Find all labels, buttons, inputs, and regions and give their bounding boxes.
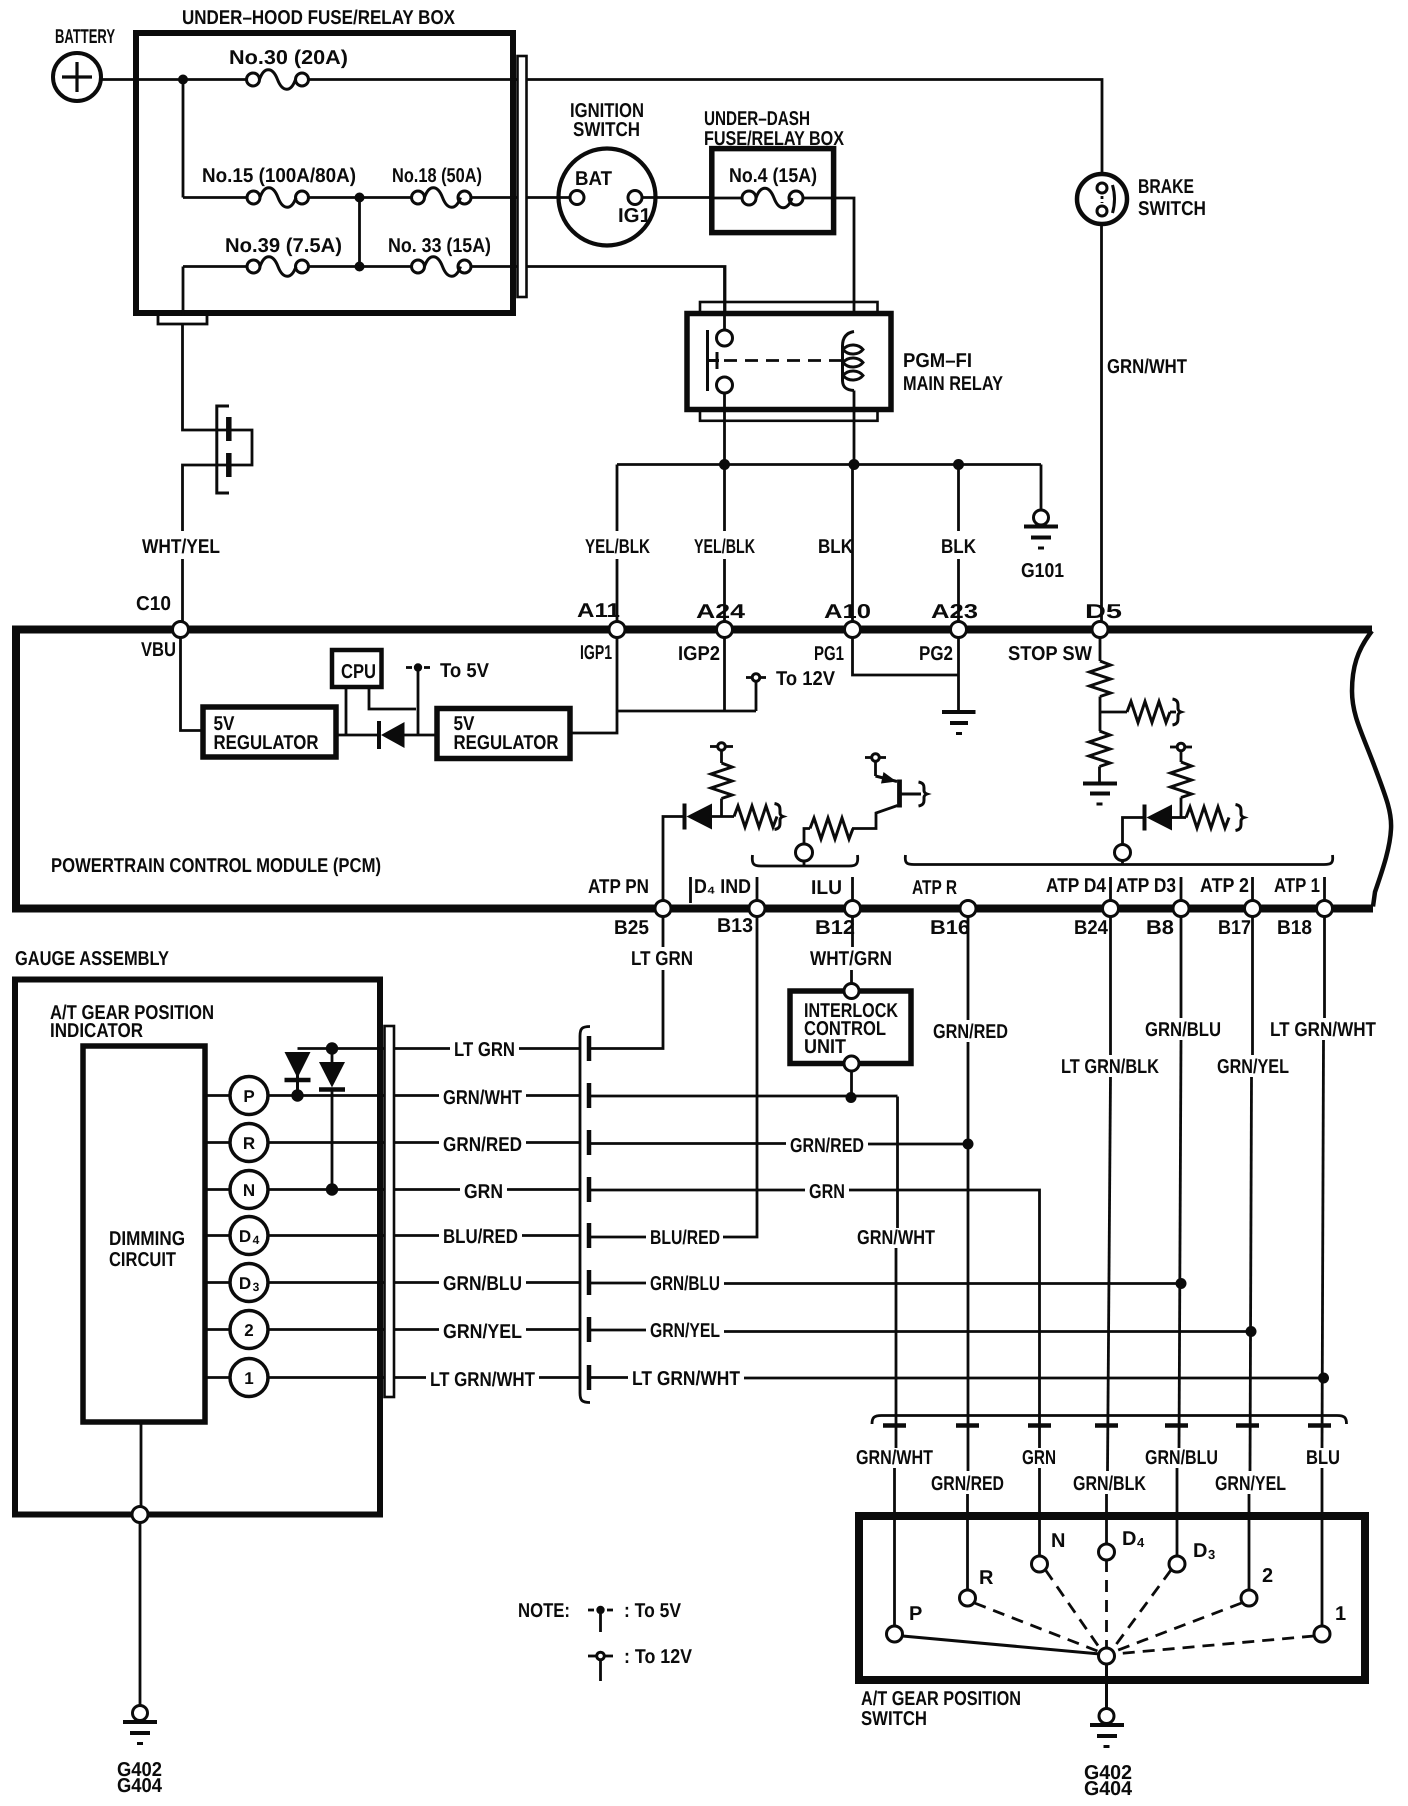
interlock top terminal: [844, 984, 859, 999]
pin B17 connector: [1245, 901, 1261, 917]
svg-text:UNDER–DASH: UNDER–DASH: [704, 108, 810, 130]
wire bracket circle stem: [1121, 861, 1124, 865]
svg-text:ATP 2: ATP 2: [1200, 875, 1249, 897]
node A23 junction: [953, 459, 964, 470]
node N diode junction top: [326, 1042, 338, 1054]
wire B24 to switch: [1108, 1077, 1111, 1471]
svg-text:GRN/YEL: GRN/YEL: [443, 1321, 522, 1343]
wire P into switch: [893, 1468, 896, 1626]
wire B25 LT GRN drop: [662, 917, 665, 948]
wire relay contact bottom down: [723, 393, 726, 465]
svg-text:REGULATOR: REGULATOR: [454, 732, 559, 754]
pin A11 connector: [609, 622, 625, 638]
ignition switch: [559, 149, 656, 246]
svg-text:: To 5V: : To 5V: [624, 1600, 682, 1622]
inline connector: [217, 406, 229, 493]
svg-text:To 5V: To 5V: [440, 660, 490, 682]
contact N: [1032, 1556, 1048, 1572]
hook terminal: [1173, 699, 1182, 725]
wire D4 into switch: [1105, 1494, 1108, 1544]
wire junction segment: [309, 196, 412, 199]
svg-text:No.15 (100A/80A): No.15 (100A/80A): [202, 165, 356, 187]
svg-text:G101: G101: [1021, 560, 1064, 582]
resistor ATP D3 series: [1186, 807, 1229, 828]
pin A10 connector: [845, 622, 861, 638]
connector tick GRN: [587, 1177, 592, 1202]
hook terminal: [1236, 805, 1245, 831]
wire B17 drop: [1251, 917, 1254, 1056]
svg-text:INDICATOR: INDICATOR: [50, 1020, 143, 1042]
svg-text:B17: B17: [1218, 917, 1251, 939]
To 12V tap D4 IND pull-up: [710, 743, 733, 763]
svg-text:YEL/BLK: YEL/BLK: [694, 536, 755, 558]
wire to interlock unit: [850, 970, 853, 984]
wire GRN row: [589, 1189, 805, 1192]
svg-text:UNIT: UNIT: [804, 1036, 846, 1058]
svg-text:IGP2: IGP2: [678, 643, 720, 665]
wire R into switch: [966, 1494, 969, 1590]
ground stop sw: [1083, 784, 1117, 805]
svg-text:4: 4: [253, 1233, 260, 1247]
wire IGP2 drop: [723, 638, 726, 712]
ground G402/G404 gauge: [123, 1706, 157, 1744]
dashed arm 2: [1113, 1603, 1242, 1652]
wire 2 into switch: [1248, 1494, 1251, 1590]
node No.15/No.18 junction: [355, 193, 365, 203]
svg-text:BLU/RED: BLU/RED: [650, 1227, 720, 1249]
wire B16 GRN/RED drop: [967, 917, 970, 1021]
svg-text:PGM–FI: PGM–FI: [903, 350, 972, 372]
svg-text:B13: B13: [717, 915, 753, 937]
wire brake switch down: [1100, 224, 1103, 622]
wire B18 drop: [1323, 917, 1326, 1019]
diode D4 IND clamp: [685, 804, 713, 830]
wire battery to fuse box: [101, 78, 248, 81]
wire N row: [269, 1188, 461, 1191]
transistor Q1: [876, 772, 928, 808]
svg-text:A10: A10: [824, 601, 871, 623]
wire diode to regulator2: [405, 734, 438, 737]
dashed arm 1: [1114, 1636, 1314, 1654]
wire A10 drop: [851, 465, 854, 623]
node relay contact junction: [719, 459, 730, 470]
contact 1: [1314, 1626, 1330, 1642]
pin B25 connector: [655, 901, 671, 917]
under-dash fuse/relay box: [712, 149, 834, 233]
CPU box: [332, 650, 382, 687]
resistor ILU base: [810, 818, 853, 839]
contact R: [960, 1590, 976, 1606]
gauge assembly box: [15, 980, 380, 1515]
connector tick N wire: [1028, 1423, 1051, 1428]
resistor stop sw lower: [1089, 731, 1110, 767]
diode lamp N feed: [319, 1049, 345, 1190]
wire B8 drop: [1180, 917, 1183, 1019]
indicator lamp 2: [205, 1311, 268, 1349]
node N diode junction bottom: [326, 1183, 338, 1195]
svg-text:GRN/WHT: GRN/WHT: [856, 1447, 933, 1469]
fuse No.30 (20A): [247, 70, 309, 90]
wire to ground: [1098, 767, 1101, 784]
svg-text:4: 4: [1137, 1535, 1145, 1550]
svg-text:LT GRN: LT GRN: [454, 1039, 515, 1061]
wire GRN/YEL row: [589, 1329, 646, 1332]
svg-text:GRN/RED: GRN/RED: [443, 1134, 522, 1156]
wire LT GRN row start: [298, 1047, 451, 1050]
dimming circuit box: [83, 1046, 205, 1422]
dashed arm R: [975, 1603, 1101, 1652]
wire 2 row: [269, 1328, 440, 1331]
separator tick ATP D4 / ATP D3: [1109, 877, 1112, 901]
diode ATP D3 clamp: [1145, 805, 1173, 831]
svg-text:MAIN RELAY: MAIN RELAY: [903, 373, 1004, 395]
To 12V tap transistor collector: [865, 754, 886, 776]
svg-text:IGP1: IGP1: [580, 642, 612, 664]
indicator lamp D4: [205, 1217, 268, 1255]
wire notch through inline connector: [183, 324, 253, 531]
svg-text:ATP D3: ATP D3: [1116, 875, 1176, 897]
svg-text:PG2: PG2: [919, 643, 953, 665]
svg-text:No.39 (7.5A): No.39 (7.5A): [225, 235, 342, 257]
svg-text:NOTE:: NOTE:: [518, 1600, 570, 1622]
interlock control unit box: [790, 991, 911, 1064]
wire diode anode to bracket circle: [1123, 818, 1145, 846]
connector tick 1 wire: [1308, 1423, 1331, 1428]
connector tick D3 wire: [1165, 1423, 1188, 1428]
connector tick 2 wire: [1236, 1423, 1259, 1428]
pin B24 connector: [1103, 901, 1119, 917]
dashed arm D4: [1105, 1560, 1108, 1648]
svg-text:WHT/GRN: WHT/GRN: [810, 948, 892, 970]
svg-text:BLU: BLU: [1306, 1447, 1340, 1469]
battery positive terminal: [53, 53, 101, 101]
svg-text:B8: B8: [1146, 917, 1174, 939]
connector tick BLU/RED: [587, 1223, 592, 1248]
wire D4 row: [269, 1234, 440, 1237]
wire P row: [269, 1094, 440, 1097]
wire diode anode to B25: [663, 817, 685, 902]
bracket B13-B12: [752, 855, 857, 866]
ATP bracket node circle: [1115, 845, 1131, 861]
svg-text:ILU: ILU: [811, 877, 842, 899]
fuse No.4 (15A): [715, 188, 804, 208]
svg-text:SWITCH: SWITCH: [573, 119, 640, 141]
relay switch bar: [708, 330, 720, 391]
wire CPU left leg: [345, 687, 348, 735]
svg-text:GRN: GRN: [809, 1181, 845, 1203]
pin B8 connector: [1173, 901, 1189, 917]
wire No.33 to PGM-FI relay: [471, 265, 517, 268]
ground PG internal: [942, 712, 976, 734]
connector tick GRN/YEL: [587, 1317, 592, 1342]
5V regulator 2: [437, 709, 570, 759]
svg-text:DIMMING: DIMMING: [109, 1228, 185, 1250]
wire No.18 to ignition switch: [471, 196, 517, 199]
resistor D4 IND pull-up: [711, 763, 732, 799]
svg-text:1: 1: [244, 1369, 253, 1388]
note To 5V symbol: [588, 1606, 613, 1632]
wire BLU/RED row: [589, 1236, 646, 1239]
wire N into switch: [1038, 1468, 1041, 1556]
connector tick GRN/WHT: [587, 1083, 592, 1108]
wire divider to series resistor: [1100, 711, 1127, 714]
svg-text:BATTERY: BATTERY: [55, 26, 115, 48]
svg-text:B12: B12: [815, 917, 855, 939]
svg-text:GRN/WHT: GRN/WHT: [443, 1087, 522, 1109]
svg-text:GRN/BLU: GRN/BLU: [1145, 1019, 1221, 1041]
pin B13 connector: [749, 901, 765, 917]
fuse No.15 (100A/80A): [183, 188, 309, 208]
diode lamp P feed: [285, 1052, 311, 1091]
PGM-FI main relay case: [687, 314, 891, 410]
wire power rail A11-G101: [617, 463, 1041, 466]
wire WHT/YEL to C10: [181, 559, 184, 622]
wire junction down: [358, 198, 361, 267]
wire GRN/WHT down: [896, 1097, 899, 1229]
wire PG2 drop: [957, 638, 960, 713]
svg-text:D5: D5: [1085, 601, 1122, 623]
svg-text:R: R: [243, 1134, 255, 1153]
switch harness bracket: [872, 1416, 1347, 1425]
svg-text:GRN/YEL: GRN/YEL: [1217, 1056, 1289, 1078]
wire B18 to switch: [1322, 1040, 1324, 1448]
separator tick ILU / ATP R: [851, 877, 854, 901]
node interlock junction: [846, 1092, 857, 1103]
wire resistor to diode node: [1180, 798, 1183, 818]
node LT GRN/WHT junction on B18: [1318, 1373, 1329, 1384]
wire B25 to gauge row: [589, 970, 663, 1049]
connector tick LT GRN: [587, 1036, 592, 1061]
wire interlock to GRN/WHT row: [850, 1071, 853, 1096]
pin B12 connector: [845, 901, 861, 917]
pin D5 connector: [1092, 622, 1108, 638]
wire R row: [269, 1141, 440, 1144]
svg-text:N: N: [243, 1181, 255, 1200]
wire 1 row: [269, 1376, 427, 1379]
wire IGP1 to IGP2 rail: [617, 710, 756, 713]
powertrain control module box: [16, 630, 1373, 909]
bracket ATP R - ATP 1: [905, 855, 1332, 865]
contact D4: [1099, 1544, 1115, 1560]
relay contact bottom: [717, 377, 733, 393]
wire CPU right leg: [369, 687, 416, 709]
dashed arm N: [1046, 1570, 1102, 1650]
gauge connector strip: [385, 1026, 395, 1397]
A/T gear position switch box: [859, 1516, 1365, 1680]
svg-text:A24: A24: [696, 601, 746, 623]
svg-text:G404: G404: [1084, 1778, 1133, 1800]
wire D3 row: [269, 1281, 440, 1284]
svg-text:BRAKE: BRAKE: [1138, 176, 1194, 198]
node P diode junction: [291, 1089, 303, 1101]
resistor stop sw upper: [1090, 661, 1111, 697]
node junction battery feed: [178, 75, 188, 85]
svg-text:LT GRN/WHT: LT GRN/WHT: [430, 1369, 535, 1391]
svg-text:ATP D4: ATP D4: [1046, 875, 1107, 897]
svg-text:1: 1: [1335, 1603, 1346, 1625]
wire resistor to hook: [1170, 711, 1176, 714]
wire diode to resistor: [1172, 816, 1186, 819]
svg-text:PG1: PG1: [814, 643, 844, 665]
svg-text:C10: C10: [136, 593, 171, 615]
wire VBU to 5V regulator: [181, 638, 205, 731]
wire B12 WHT/GRN drop: [851, 917, 854, 948]
svg-text:GRN/BLK: GRN/BLK: [1073, 1473, 1146, 1495]
connector tick LT GRN/WHT: [587, 1365, 592, 1390]
svg-text:REGULATOR: REGULATOR: [214, 732, 319, 754]
note To 12V symbol: [588, 1652, 613, 1681]
svg-text:N: N: [1051, 1530, 1065, 1552]
svg-text:A/T GEAR POSITION: A/T GEAR POSITION: [861, 1688, 1021, 1710]
svg-text:No.18 (50A): No.18 (50A): [392, 165, 482, 187]
wire GRN/RED row: [589, 1142, 786, 1145]
svg-text:VBU: VBU: [141, 639, 176, 661]
svg-text:SWITCH: SWITCH: [1138, 198, 1206, 220]
svg-text:LT GRN/WHT: LT GRN/WHT: [632, 1368, 740, 1390]
relay contact top: [717, 330, 733, 346]
wire B16 down to switch: [967, 1042, 970, 1471]
wire junction segment: [309, 265, 412, 268]
wire 1 into switch: [1321, 1468, 1324, 1626]
under-hood box right connector strip: [518, 56, 527, 297]
svg-text:D: D: [1122, 1528, 1136, 1550]
svg-text:GRN/RED: GRN/RED: [933, 1021, 1008, 1043]
svg-text:D: D: [239, 1274, 251, 1293]
ground G402/G404 switch: [1090, 1709, 1124, 1747]
svg-text:: To 12V: : To 12V: [624, 1646, 693, 1668]
resistor D4 IND series: [734, 806, 777, 827]
wire B17 to switch: [1250, 1077, 1252, 1471]
connector tick R wire: [956, 1423, 979, 1428]
svg-text:CPU: CPU: [341, 661, 376, 683]
wire junction down to No.15 row: [182, 80, 185, 198]
ILU lamp driver node circle: [796, 844, 813, 861]
wire GRN/WHT to switch: [895, 1248, 898, 1448]
wire No.4 to relay coil: [803, 198, 854, 331]
common contact: [1099, 1648, 1115, 1664]
relay actuation dashed link: [724, 359, 841, 362]
svg-text:To 12V: To 12V: [776, 668, 836, 690]
resistor ATP D3 pull-up: [1171, 762, 1192, 798]
svg-text:LT GRN/WHT: LT GRN/WHT: [1270, 1019, 1376, 1041]
svg-text:B25: B25: [614, 917, 649, 939]
indicator lamp D3: [205, 1264, 268, 1302]
svg-text:GRN: GRN: [464, 1181, 503, 1203]
svg-text:3: 3: [253, 1280, 260, 1294]
wire PG1 to PG2 ground rail: [853, 638, 959, 676]
wire D3 into switch: [1176, 1468, 1179, 1556]
wire resistor to diode node: [720, 799, 723, 817]
svg-text:D: D: [239, 1227, 251, 1246]
svg-text:GRN/BLU: GRN/BLU: [443, 1273, 522, 1295]
connector tick P wire: [883, 1423, 906, 1428]
rotor arm P to common: [903, 1636, 1101, 1654]
svg-text:LT GRN/BLK: LT GRN/BLK: [1061, 1056, 1159, 1078]
5V regulator 1: [203, 707, 336, 757]
wire lamp node stem: [803, 861, 806, 866]
svg-text:No.30 (20A): No.30 (20A): [229, 47, 348, 69]
pin B18 connector: [1317, 901, 1333, 917]
svg-text:GRN/BLU: GRN/BLU: [650, 1273, 720, 1295]
wire B13 BLU/RED drop: [723, 917, 757, 1238]
contact P: [887, 1626, 903, 1642]
separator tick ATP PN / D4 IND: [689, 877, 692, 903]
relay coil: [843, 332, 864, 391]
connector tick GRN/RED: [587, 1130, 592, 1155]
PGM-FI main relay outer connector: [700, 302, 878, 421]
svg-text:P: P: [909, 1603, 922, 1625]
wire relay contact top feed: [723, 267, 726, 331]
svg-text:2: 2: [244, 1321, 253, 1340]
wire B8 to switch: [1179, 1040, 1181, 1448]
svg-text:A23: A23: [931, 601, 978, 623]
svg-text:D₄ IND: D₄ IND: [694, 876, 751, 898]
svg-text:R: R: [979, 1567, 994, 1589]
svg-text:BAT: BAT: [575, 168, 612, 190]
svg-text:LT GRN: LT GRN: [631, 948, 693, 970]
dashed arm D3: [1112, 1570, 1171, 1650]
svg-text:3: 3: [1208, 1547, 1215, 1562]
wire to brake switch: [527, 80, 1103, 177]
svg-text:No.4 (15A): No.4 (15A): [729, 165, 817, 187]
svg-text:B16: B16: [930, 917, 970, 939]
separator tick right of ATP 1: [1323, 877, 1326, 901]
svg-text:B24: B24: [1074, 917, 1109, 939]
svg-text:B18: B18: [1277, 917, 1312, 939]
connector tick GRN/BLU: [587, 1270, 592, 1295]
svg-text:UNDER–HOOD FUSE/RELAY BOX: UNDER–HOOD FUSE/RELAY BOX: [182, 7, 456, 29]
fuse No.39 (7.5A): [183, 257, 309, 277]
node GRN/YEL junction on B17: [1246, 1326, 1257, 1337]
svg-text:2: 2: [1262, 1565, 1273, 1587]
svg-text:No. 33 (15A): No. 33 (15A): [388, 235, 491, 257]
svg-text:IG1: IG1: [618, 205, 651, 227]
separator tick D4 IND / ILU: [756, 877, 759, 901]
resistor stop sw series: [1127, 702, 1170, 723]
svg-text:BLK: BLK: [941, 536, 976, 558]
svg-text:D: D: [1193, 1540, 1207, 1562]
PCM torn right edge: [1352, 631, 1391, 907]
svg-text:P: P: [243, 1087, 254, 1106]
pin A24 connector: [717, 622, 733, 638]
svg-text:BLU/RED: BLU/RED: [443, 1226, 518, 1248]
svg-text:ATP 1: ATP 1: [1274, 875, 1320, 897]
pin A23 connector: [951, 622, 967, 638]
svg-text:GRN/WHT: GRN/WHT: [857, 1227, 935, 1249]
To 5V tap: [406, 663, 430, 735]
gauge ground connector: [132, 1507, 148, 1523]
connector tick D4 wire: [1095, 1423, 1118, 1428]
under-hood box bottom connector notch: [158, 316, 207, 324]
svg-text:GRN/RED: GRN/RED: [931, 1473, 1004, 1495]
wire to divider node: [1099, 697, 1102, 732]
wire regulator1 to diode: [336, 734, 379, 737]
wire A11 drop: [616, 465, 619, 532]
svg-text:GAUGE ASSEMBLY: GAUGE ASSEMBLY: [15, 948, 170, 970]
node GRN/BLU junction on B8: [1176, 1278, 1187, 1289]
wire GRN/WHT row to corner: [589, 1095, 898, 1098]
pin B16 connector: [960, 901, 976, 917]
separator tick ATP D3 / ATP 2: [1180, 877, 1183, 901]
wire lamp node to ILU resistor: [804, 829, 810, 845]
svg-text:G404: G404: [117, 1775, 163, 1797]
svg-text:STOP SW: STOP SW: [1008, 643, 1092, 665]
wire to ground G101: [1040, 465, 1043, 511]
separator tick ATP 2 / ATP 1: [1251, 877, 1254, 901]
wire dimming circuit to ground connector: [140, 1422, 143, 1507]
fuse No.33 (15A): [412, 257, 472, 277]
svg-text:CIRCUIT: CIRCUIT: [109, 1249, 176, 1271]
